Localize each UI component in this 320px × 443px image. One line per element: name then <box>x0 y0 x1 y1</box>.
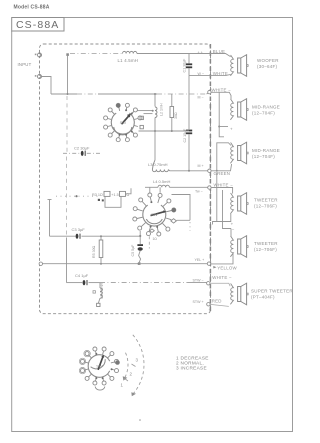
svg-text:C3 3µF: C3 3µF <box>72 227 86 232</box>
svg-text:R3 1Ω: R3 1Ω <box>92 193 103 197</box>
wire green stub <box>211 170 224 172</box>
svg-text:SW: SW <box>96 364 103 369</box>
svg-text:3 INCREASE: 3 INCREASE <box>176 366 207 371</box>
resistor 30 ohm vertical x=171.8 <box>171 94 173 107</box>
wire R3 feed (dash) <box>56 195 99 197</box>
node A junction (input bus) <box>66 53 69 56</box>
svg-text:C2 30µF: C2 30µF <box>74 145 90 150</box>
mid-range 2 voice-coil <box>230 143 233 164</box>
svg-text:TWEETER: TWEETER <box>254 241 278 246</box>
wire mid1 drop bracket <box>219 92 224 137</box>
wall terminal YELLOW <box>207 262 210 265</box>
svg-text:(30–64F): (30–64F) <box>257 64 278 69</box>
svg-text:Model CS-88A: Model CS-88A <box>14 5 50 11</box>
inductor L2 1mH vertical bus x=155 <box>154 94 156 107</box>
svg-text:WHITE −: WHITE − <box>212 275 232 280</box>
wire woofer feed y=53.5 (dash-dot then solid) <box>70 53 122 55</box>
selector arc 2 (dashed) <box>124 353 128 379</box>
wire from R4 up to tweeter line <box>126 188 132 194</box>
rotary switch SW2 (tweeter level) <box>133 193 176 236</box>
resistor R5 30 ohm vertical <box>100 236 102 240</box>
left bracket wire x=49.5 <box>49 200 51 237</box>
title box <box>12 18 64 32</box>
switch2 aux contact dashes <box>150 229 155 233</box>
woofer voice-coil <box>230 55 233 76</box>
svg-text:+: + <box>209 307 212 312</box>
capacitor C5 (switch2 shunt) <box>139 231 141 244</box>
svg-text:+: + <box>230 127 233 132</box>
wire stw bottom bracket (red) <box>210 304 229 306</box>
wall terminal GREEN <box>208 169 211 172</box>
wire switch2 right taps <box>172 195 191 221</box>
selector arc 1 (dashed) <box>133 335 144 395</box>
wire switch1 bottom y=131 <box>139 130 190 132</box>
wire woofer return y=75.6 <box>189 75 210 77</box>
wire switch2 top drops <box>149 187 151 192</box>
mid-range 1 speaker icon <box>238 102 241 117</box>
wire input2 to lower rail <box>42 77 52 95</box>
wire stw top bracket (white) <box>210 283 230 286</box>
svg-text:INPUT: INPUT <box>18 62 32 67</box>
wire tweeter2 top bracket <box>230 229 232 237</box>
woofer speaker icon <box>238 58 241 73</box>
svg-text:CS-88A: CS-88A <box>16 19 59 31</box>
svg-text:C5 5µF: C5 5µF <box>131 244 135 257</box>
wire negative rail vertical x=67.5 <box>67 56 69 94</box>
tweeter 1 speaker icon <box>238 196 241 211</box>
enclosure right wall (heavy dashed) <box>209 44 211 312</box>
capacitor C2 15uF (electrolytic) <box>186 130 192 132</box>
svg-text:L1 4.5mH: L1 4.5mH <box>118 58 139 63</box>
svg-text:3: 3 <box>136 358 139 363</box>
wire bus x=189 down to C2 <box>188 76 190 130</box>
svg-text:L4 0.5mH: L4 0.5mH <box>153 179 170 184</box>
switch3 selected contact <box>115 360 120 365</box>
svg-text:MID-RANGE: MID-RANGE <box>252 148 280 153</box>
svg-text:RED: RED <box>212 299 222 304</box>
wire tweeter feed y=187.3 <box>145 186 158 188</box>
wire tweeter1 bottom bracket <box>216 173 218 222</box>
svg-text:−: − <box>232 227 235 232</box>
svg-text:STW +: STW + <box>193 300 204 304</box>
svg-text:C4 1µF: C4 1µF <box>75 273 89 278</box>
svg-text:(PT–404F): (PT–404F) <box>251 295 275 300</box>
svg-text:Tw −: Tw − <box>195 189 203 193</box>
wall terminal M- <box>208 90 211 93</box>
capacitor C2 30uF horizontal feed <box>63 152 80 154</box>
wall terminal RED/STW <box>207 303 210 306</box>
svg-text:M +: M + <box>198 164 204 168</box>
wire lower bus y=263.7 <box>42 263 206 265</box>
svg-text:(12–706F): (12–706F) <box>254 247 277 252</box>
svg-text:TWEETER: TWEETER <box>254 197 278 202</box>
tweeter 2 speaker icon <box>238 239 241 254</box>
svg-text:30Ω: 30Ω <box>174 112 178 119</box>
svg-text:C2 15µF: C2 15µF <box>183 128 187 143</box>
inductor L1 4.5mH <box>123 51 137 53</box>
wire mid1 top bracket <box>211 92 231 99</box>
wire tweeter2 bottom bracket (yellow) <box>211 254 233 264</box>
rotary switch SW1 (mid-range level) <box>104 103 144 141</box>
svg-text:L5 0.5mH: L5 0.5mH <box>100 283 104 299</box>
svg-text:WHITE −: WHITE − <box>212 88 232 93</box>
svg-text:SW: SW <box>120 120 127 125</box>
rotary switch SW3 (level selector) <box>79 347 118 385</box>
crossover network dashed enclosure <box>40 44 211 314</box>
mid-range 2 speaker icon <box>238 146 241 161</box>
input terminal - <box>38 75 42 79</box>
capacitor C1 30uF (electrolytic) <box>188 54 190 64</box>
switch3 bottom link <box>95 387 105 391</box>
svg-text:R5 30Ω: R5 30Ω <box>92 245 96 258</box>
svg-text:STW −: STW − <box>193 279 204 283</box>
svg-text:+1.5: +1.5 <box>111 193 119 197</box>
wire green feed y=170.8 <box>170 170 210 172</box>
wire mid2 top bracket <box>217 143 231 171</box>
svg-text:W −: W − <box>198 72 205 76</box>
svg-text:+ +: + + <box>198 51 203 55</box>
wall terminal WHITE/STW <box>207 282 210 285</box>
svg-text:(12–706F): (12–706F) <box>254 204 277 209</box>
svg-text:1: 1 <box>121 383 124 388</box>
svg-text:C1 30µF: C1 30µF <box>183 58 187 73</box>
tweeter 2 voice-coil <box>230 236 233 257</box>
wire mid2 low feed (green) <box>224 164 232 171</box>
svg-text:WOOFER: WOOFER <box>257 58 279 63</box>
svg-text:(12–704F): (12–704F) <box>252 154 275 159</box>
input terminal + <box>38 53 42 57</box>
stray dot <box>139 419 141 421</box>
svg-text:L3 0.75mH: L3 0.75mH <box>148 162 168 167</box>
svg-text:M −: M − <box>198 96 204 100</box>
selector tick marks <box>124 378 128 381</box>
svg-text:SW: SW <box>151 212 158 217</box>
svg-text:SUPER TWEETER: SUPER TWEETER <box>251 288 293 293</box>
svg-text:2: 2 <box>130 372 133 377</box>
svg-text:L2 1mH: L2 1mH <box>160 103 164 116</box>
wire woofer + bracket <box>210 54 231 57</box>
svg-text:MID-RANGE: MID-RANGE <box>252 104 280 109</box>
svg-text:1Ω: 1Ω <box>153 237 158 241</box>
super tweeter speaker icon <box>238 287 241 302</box>
svg-text:GREEN: GREEN <box>214 171 231 176</box>
wall terminal WHITE/TW <box>208 186 211 189</box>
wire mid feed y=94 (dash-dot to right wall) <box>51 93 77 95</box>
svg-text:YEL +: YEL + <box>195 258 205 262</box>
svg-text:(12–704F): (12–704F) <box>252 111 275 116</box>
inductor L5 0.5mH vertical <box>99 283 101 288</box>
super tweeter voice-coil <box>230 284 233 305</box>
wire woofer - bracket <box>210 74 231 75</box>
wire tweeter1 top bracket <box>211 188 233 194</box>
wire resistor U-link <box>105 196 121 207</box>
mid-range 1 voice-coil <box>230 99 233 120</box>
tweeter 1 voice-coil <box>230 193 233 214</box>
switch1 wiring to bus <box>138 110 153 112</box>
svg-text:YELLOW: YELLOW <box>217 265 237 270</box>
